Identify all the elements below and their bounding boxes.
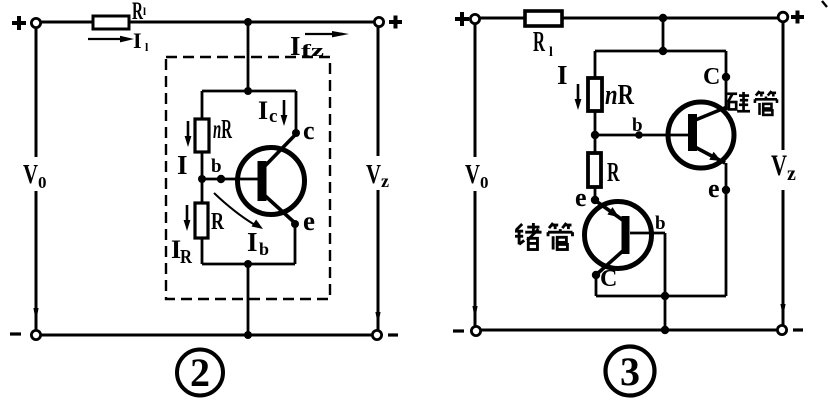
node: top junction <box>659 14 667 22</box>
svg-text:C: C <box>600 266 617 292</box>
transistor Q3 base bar <box>622 216 630 254</box>
svg-text:I: I <box>557 60 568 90</box>
wire: bottom rail <box>481 329 778 332</box>
wire: junction down into box <box>247 22 250 91</box>
label 硅管 <box>727 92 750 111</box>
tick left rail <box>33 308 38 322</box>
svg-text:I: I <box>133 28 142 53</box>
arrow IR (down, left of R) <box>184 205 191 231</box>
wire: collector drop <box>295 91 298 135</box>
wire: inner top <box>202 90 296 93</box>
wire: to bottom rail <box>664 296 667 330</box>
node b dot <box>635 131 643 139</box>
transistor Q1 body <box>238 148 305 215</box>
wire: germanium collector drop <box>595 275 598 296</box>
transistor Q2 body (silicon) <box>668 102 734 168</box>
transistor Q2 emitter arrow (NPN outward) <box>709 152 721 161</box>
label 锗管 <box>515 223 542 250</box>
figure number 3 <box>606 347 655 396</box>
wire: b down <box>664 233 667 296</box>
wire: left rail <box>474 24 477 327</box>
wire: junction down <box>662 18 665 51</box>
arrow I1 <box>88 38 126 40</box>
resistor R1 body <box>525 11 562 26</box>
node e <box>291 220 299 228</box>
svg-text:C: C <box>703 64 720 90</box>
svg-text:I: I <box>177 150 188 180</box>
svg-text:nR: nR <box>605 79 635 111</box>
wire: base <box>202 178 259 181</box>
svg-text:c: c <box>303 116 315 145</box>
dashed feedback box <box>166 57 330 299</box>
terminal circle top-right <box>374 17 383 26</box>
svg-text:0: 0 <box>38 173 47 192</box>
node C (germanium) <box>592 271 600 279</box>
svg-text:b: b <box>655 213 666 234</box>
svg-text:b: b <box>211 156 222 177</box>
terminal circle top-right <box>778 12 788 22</box>
arrow I (down, left of nR) <box>185 121 192 147</box>
svg-text:R: R <box>132 0 144 25</box>
resistor nR body <box>588 78 602 111</box>
svg-text:V: V <box>465 159 480 189</box>
svg-text:l: l <box>143 6 146 18</box>
node: bottom rail junction <box>661 326 669 334</box>
node: second junction <box>659 47 667 55</box>
wire: left branch vertical <box>594 51 597 200</box>
transistor Q3 emitter stroke <box>596 201 624 221</box>
terminal + top-left <box>455 12 469 26</box>
resistor R body <box>588 153 601 187</box>
wire: bottom rail <box>41 334 373 337</box>
transistor Q3 emitter arrow (PNP inward) <box>607 207 619 217</box>
svg-text:R: R <box>533 27 545 58</box>
terminal circle bottom-left <box>471 326 480 335</box>
terminal circle bottom-left <box>31 330 40 339</box>
node: bottom rail junction <box>244 331 252 339</box>
svg-text:R: R <box>211 209 224 235</box>
node e (silicon) <box>722 186 730 194</box>
wire: base to silicon <box>595 134 690 137</box>
terminal - bottom-left <box>453 329 464 332</box>
wire: top rail <box>41 21 375 24</box>
transistor Q3 collector stroke <box>597 249 625 274</box>
wire: inner bottom <box>202 263 295 266</box>
arrow Ifz <box>305 33 343 35</box>
transistor Q2 emitter stroke <box>693 146 725 163</box>
wire: inner bottom to bottom rail <box>247 264 250 335</box>
svg-text:2: 2 <box>190 350 210 395</box>
terminal + top-right <box>389 16 402 29</box>
svg-text:R: R <box>607 157 620 187</box>
wire: right rail <box>782 23 785 326</box>
svg-text:V: V <box>771 149 787 182</box>
label V0 <box>460 157 492 191</box>
wire: silicon collector drop <box>725 51 728 110</box>
arrow I (down) <box>575 84 582 110</box>
transistor Q2 base bar <box>688 114 697 151</box>
label Vz <box>766 150 802 190</box>
terminal circle top-left <box>31 18 40 27</box>
terminal + top-right <box>791 11 804 24</box>
label V0 <box>20 157 50 191</box>
wire: silicon emitter riser <box>725 163 728 296</box>
svg-text:e: e <box>575 183 587 212</box>
wire: upper horizontal <box>595 50 726 53</box>
corner mark <box>822 1 827 7</box>
svg-text:c: c <box>269 106 277 127</box>
svg-text:z: z <box>787 163 796 185</box>
arrow Ib (curved) <box>214 193 255 225</box>
node c <box>292 129 300 137</box>
svg-text:z: z <box>381 171 389 191</box>
transistor Q1 collector stroke <box>262 134 296 169</box>
wire: inner bottom <box>596 295 726 298</box>
svg-text:V: V <box>23 159 38 189</box>
terminal circle bottom-right <box>777 325 786 334</box>
wire: germanium base out <box>630 232 665 235</box>
tick right rail <box>375 312 380 325</box>
svg-text:b: b <box>632 115 643 136</box>
wire: left rail <box>35 27 38 332</box>
node e (germanium) <box>591 196 599 204</box>
resistor R1 body <box>93 16 129 29</box>
terminal circle bottom-right <box>372 330 381 339</box>
svg-text:I: I <box>247 227 258 257</box>
transistor Q1 base bar <box>258 161 267 201</box>
label Vz <box>362 156 394 190</box>
transistor Q3 body (germanium) <box>585 202 652 269</box>
terminal - bottom-left <box>10 332 21 335</box>
node: base junction <box>591 131 599 139</box>
node: inner bottom junction <box>661 292 669 300</box>
wire: left branch vertical <box>201 91 204 264</box>
transistor Q1 emitter stroke <box>262 193 295 223</box>
node: inner top junction <box>244 87 252 95</box>
svg-text:3: 3 <box>620 349 640 394</box>
svg-text:nR: nR <box>213 114 232 144</box>
figure number 2 <box>177 350 223 396</box>
node b junction <box>198 175 206 183</box>
wire: emitter drop <box>294 224 297 264</box>
node c (silicon) <box>722 73 730 81</box>
tick right rail <box>780 304 785 317</box>
resistor nR body <box>195 119 209 152</box>
svg-text:0: 0 <box>480 173 489 192</box>
tick left rail <box>472 306 477 320</box>
svg-text:e: e <box>303 206 315 236</box>
svg-text:l: l <box>549 45 553 60</box>
terminal + top-left <box>12 16 26 30</box>
svg-text:I: I <box>258 96 268 125</box>
arrow Ic (down) <box>281 100 288 126</box>
terminal - bottom-right <box>388 333 398 336</box>
svg-text:R: R <box>180 246 192 268</box>
transistor Q2 collector stroke <box>693 107 727 121</box>
node b dot <box>217 175 225 183</box>
resistor R body <box>195 203 208 238</box>
terminal - bottom-right <box>793 328 803 331</box>
terminal circle top-left <box>470 14 479 23</box>
node: inner bottom junction <box>244 260 252 268</box>
svg-text:V: V <box>366 159 381 189</box>
wire: right rail <box>377 27 380 332</box>
node: top junction <box>244 18 252 26</box>
svg-text:b: b <box>259 239 269 259</box>
wire: top rail <box>480 17 778 20</box>
svg-text:e: e <box>708 174 720 203</box>
